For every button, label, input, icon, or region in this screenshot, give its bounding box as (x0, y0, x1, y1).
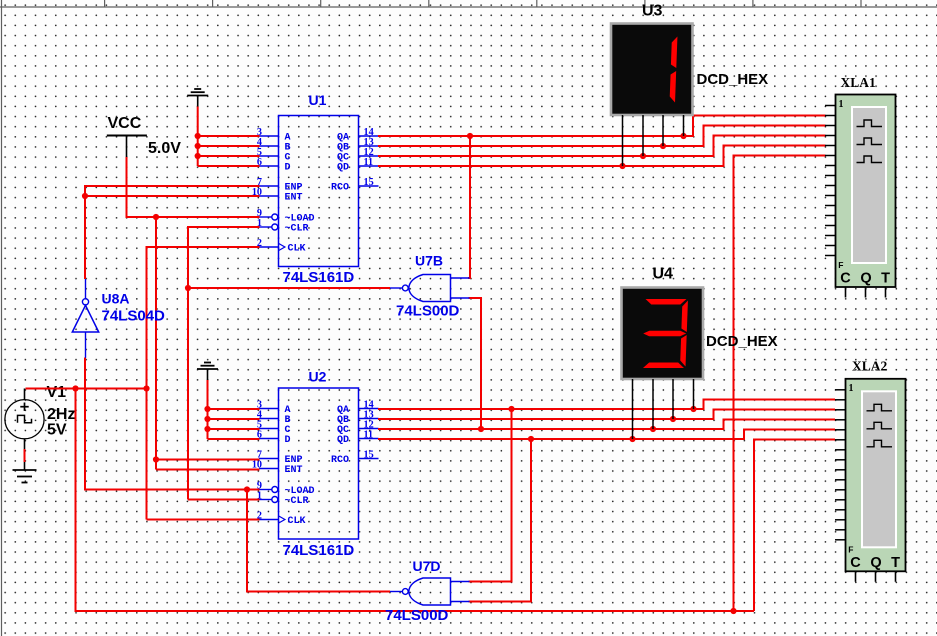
wire ground net to U1 pin B (198, 145, 260, 147)
svg-text:F: F (838, 260, 843, 270)
svg-text:74LS161D: 74LS161D (283, 269, 355, 286)
wire U8A input / U2 ~LOAD row (85, 358, 260, 490)
wire ground net to U1 pin A (198, 135, 260, 137)
wire ground2 net to U2 pin C (208, 428, 260, 430)
svg-text:5V: 5V (47, 422, 67, 439)
label U7D (413, 558, 441, 574)
wire U7B output to U1 ~CLR (188, 227, 260, 500)
svg-text:~CLR: ~CLR (285, 223, 309, 234)
label 74LS00D (U7B) (396, 303, 460, 320)
wire U2 QD bus to XLA2 ch5 (378, 430, 835, 440)
svg-text:11: 11 (364, 157, 374, 168)
svg-text:VCC: VCC (108, 115, 142, 132)
svg-text:C: C (840, 271, 851, 287)
ground (below V1) (13, 462, 37, 483)
label XLA1 (841, 75, 877, 90)
svg-text:74LS04D: 74LS04D (102, 308, 166, 325)
display U4 DCD_HEX showing 3 (622, 288, 704, 380)
svg-text:T: T (881, 271, 890, 287)
label U4 (653, 266, 674, 283)
svg-text:RCO: RCO (331, 455, 349, 466)
svg-text:1: 1 (849, 383, 854, 394)
wire U7D output to U2 ~LOAD riser (247, 490, 390, 592)
svg-text:ENT: ENT (285, 192, 303, 203)
counter U2 74LS161D (252, 369, 379, 560)
wire VCC to U1 ~LOAD (127, 157, 260, 217)
wire clock net to U2 CLK (147, 519, 260, 521)
nand gate U7B 74LS00D (390, 275, 470, 302)
svg-text:15: 15 (364, 177, 374, 188)
label DCD_HEX (U4) (706, 333, 778, 350)
svg-text:Q: Q (870, 555, 881, 571)
wire U1 QD bus to XLA1 ch5 (378, 146, 826, 167)
wire V1 to ground lead (24, 449, 26, 462)
svg-text:DCD_HEX: DCD_HEX (697, 71, 769, 88)
svg-text:74LS161D: 74LS161D (283, 542, 355, 559)
wire ground net to U1 pin C (198, 155, 260, 157)
svg-text:U1: U1 (309, 92, 327, 108)
wire VCC branch to U2 ENT (156, 469, 260, 471)
svg-text:RCO: RCO (331, 182, 349, 193)
display U3 pin leads (623, 115, 684, 166)
label 74LS04D (102, 308, 166, 325)
wire clock rail up to XLA1 ch6 (734, 156, 826, 612)
ground (top, ties U1 data inputs low) (187, 89, 208, 107)
sheet ruler ticks (105, 0, 861, 7)
label XLA2 (852, 359, 888, 374)
svg-text:QD: QD (337, 435, 349, 446)
wire U7B input 2 down to U2 QC (469, 298, 482, 429)
svg-text:F: F (848, 544, 853, 554)
counter U1 74LS161D (252, 92, 379, 286)
wire U1 QA down to U7B input 1 (468, 136, 470, 278)
label 2Hz (47, 406, 75, 423)
svg-text:XLA2: XLA2 (852, 359, 888, 374)
wire V1 branch down to bottom rail (76, 389, 755, 612)
svg-text:~CLR: ~CLR (285, 496, 309, 507)
sheet top border line (0, 6, 937, 8)
wire U2 QC bus to XLA2 ch4 (378, 420, 835, 430)
svg-text:15: 15 (364, 449, 374, 460)
wire ground1 to U1 data inputs vertical (197, 107, 199, 167)
power VCC 5.0V (107, 115, 181, 157)
wire U2 QB bus to XLA2 ch3 (378, 410, 835, 420)
wire VCC branch to U2 ENP (156, 459, 260, 461)
wire ground2 net to U2 pin A (208, 408, 260, 410)
svg-text:DCD_HEX: DCD_HEX (706, 333, 778, 350)
wire ground2 net to U2 pin D (208, 438, 260, 440)
svg-text:U3: U3 (642, 3, 663, 20)
wire U1 ENT branch (85, 195, 260, 197)
label 74LS00D (U7D) (385, 607, 449, 624)
svg-text:CLK: CLK (288, 243, 306, 254)
wire U1 QA bus to XLA1 ch2 (378, 116, 826, 137)
svg-text:U7B: U7B (415, 253, 443, 269)
svg-text:V1: V1 (47, 384, 67, 401)
svg-text:T: T (891, 555, 900, 571)
label 5V (47, 422, 67, 439)
svg-text:2Hz: 2Hz (47, 406, 75, 423)
svg-text:U4: U4 (653, 266, 674, 283)
svg-text:CLK: CLK (288, 516, 306, 527)
wire VCC branch down to U2 ENP/ENT (155, 217, 157, 470)
wire U2 QD down to U7D input 2 (469, 439, 532, 602)
wire ground2 to U2 data inputs vertical (207, 380, 209, 439)
wire clock net to U1 CLK (147, 247, 260, 520)
svg-text:C: C (850, 555, 861, 571)
sheet left border line (1, 0, 3, 636)
label DCD_HEX (U3) (697, 71, 769, 88)
svg-text:1: 1 (839, 99, 844, 110)
nand gate U7D 74LS00D (390, 578, 470, 605)
svg-text:Q: Q (860, 271, 871, 287)
svg-text:5.0V: 5.0V (148, 140, 181, 157)
wire V1 to clock net (26, 388, 147, 390)
wire U2 QA down to U7D input 1 (469, 409, 512, 582)
svg-text:74LS00D: 74LS00D (396, 303, 460, 320)
svg-text:XLA1: XLA1 (841, 75, 877, 90)
wire U7B output to U2 ~CLR (188, 499, 260, 501)
wire U7B output to ~CLR net (188, 287, 390, 289)
svg-text:U7D: U7D (413, 558, 441, 574)
inverter U8A 74LS04D (72, 279, 98, 358)
display U3 DCD_HEX showing 1 (611, 24, 693, 116)
svg-text:ENT: ENT (285, 465, 303, 476)
label U3 (642, 3, 663, 20)
svg-text:QD: QD (337, 162, 349, 173)
svg-text:74LS00D: 74LS00D (385, 607, 449, 624)
label V1 (47, 384, 67, 401)
display U4 pin leads (633, 379, 694, 439)
svg-text:11: 11 (364, 429, 374, 440)
clock source V1 2Hz 5V (5, 389, 44, 450)
wire bottom rail up to XLA2 ch6 (754, 440, 835, 612)
wire U1 QC bus to XLA1 ch4 (378, 136, 826, 157)
wire ground net to U1 pin D (198, 165, 260, 167)
svg-text:U8A: U8A (102, 291, 130, 307)
label U7B (415, 253, 443, 269)
svg-text:D: D (285, 435, 291, 446)
wire ground2 net to U2 pin B (208, 418, 260, 420)
ground (middle, ties U2 data inputs low) (197, 363, 218, 381)
svg-text:U2: U2 (309, 369, 327, 385)
label U8A (102, 291, 130, 307)
wire U1 QB bus to XLA1 ch3 (378, 126, 826, 147)
svg-text:D: D (285, 162, 291, 173)
wire U8A output to U1 ENP (85, 186, 260, 279)
logic analyzer XLA2 (835, 379, 906, 582)
wire U2 QA bus to XLA2 ch2 (378, 400, 835, 410)
logic analyzer XLA1 (825, 95, 896, 298)
